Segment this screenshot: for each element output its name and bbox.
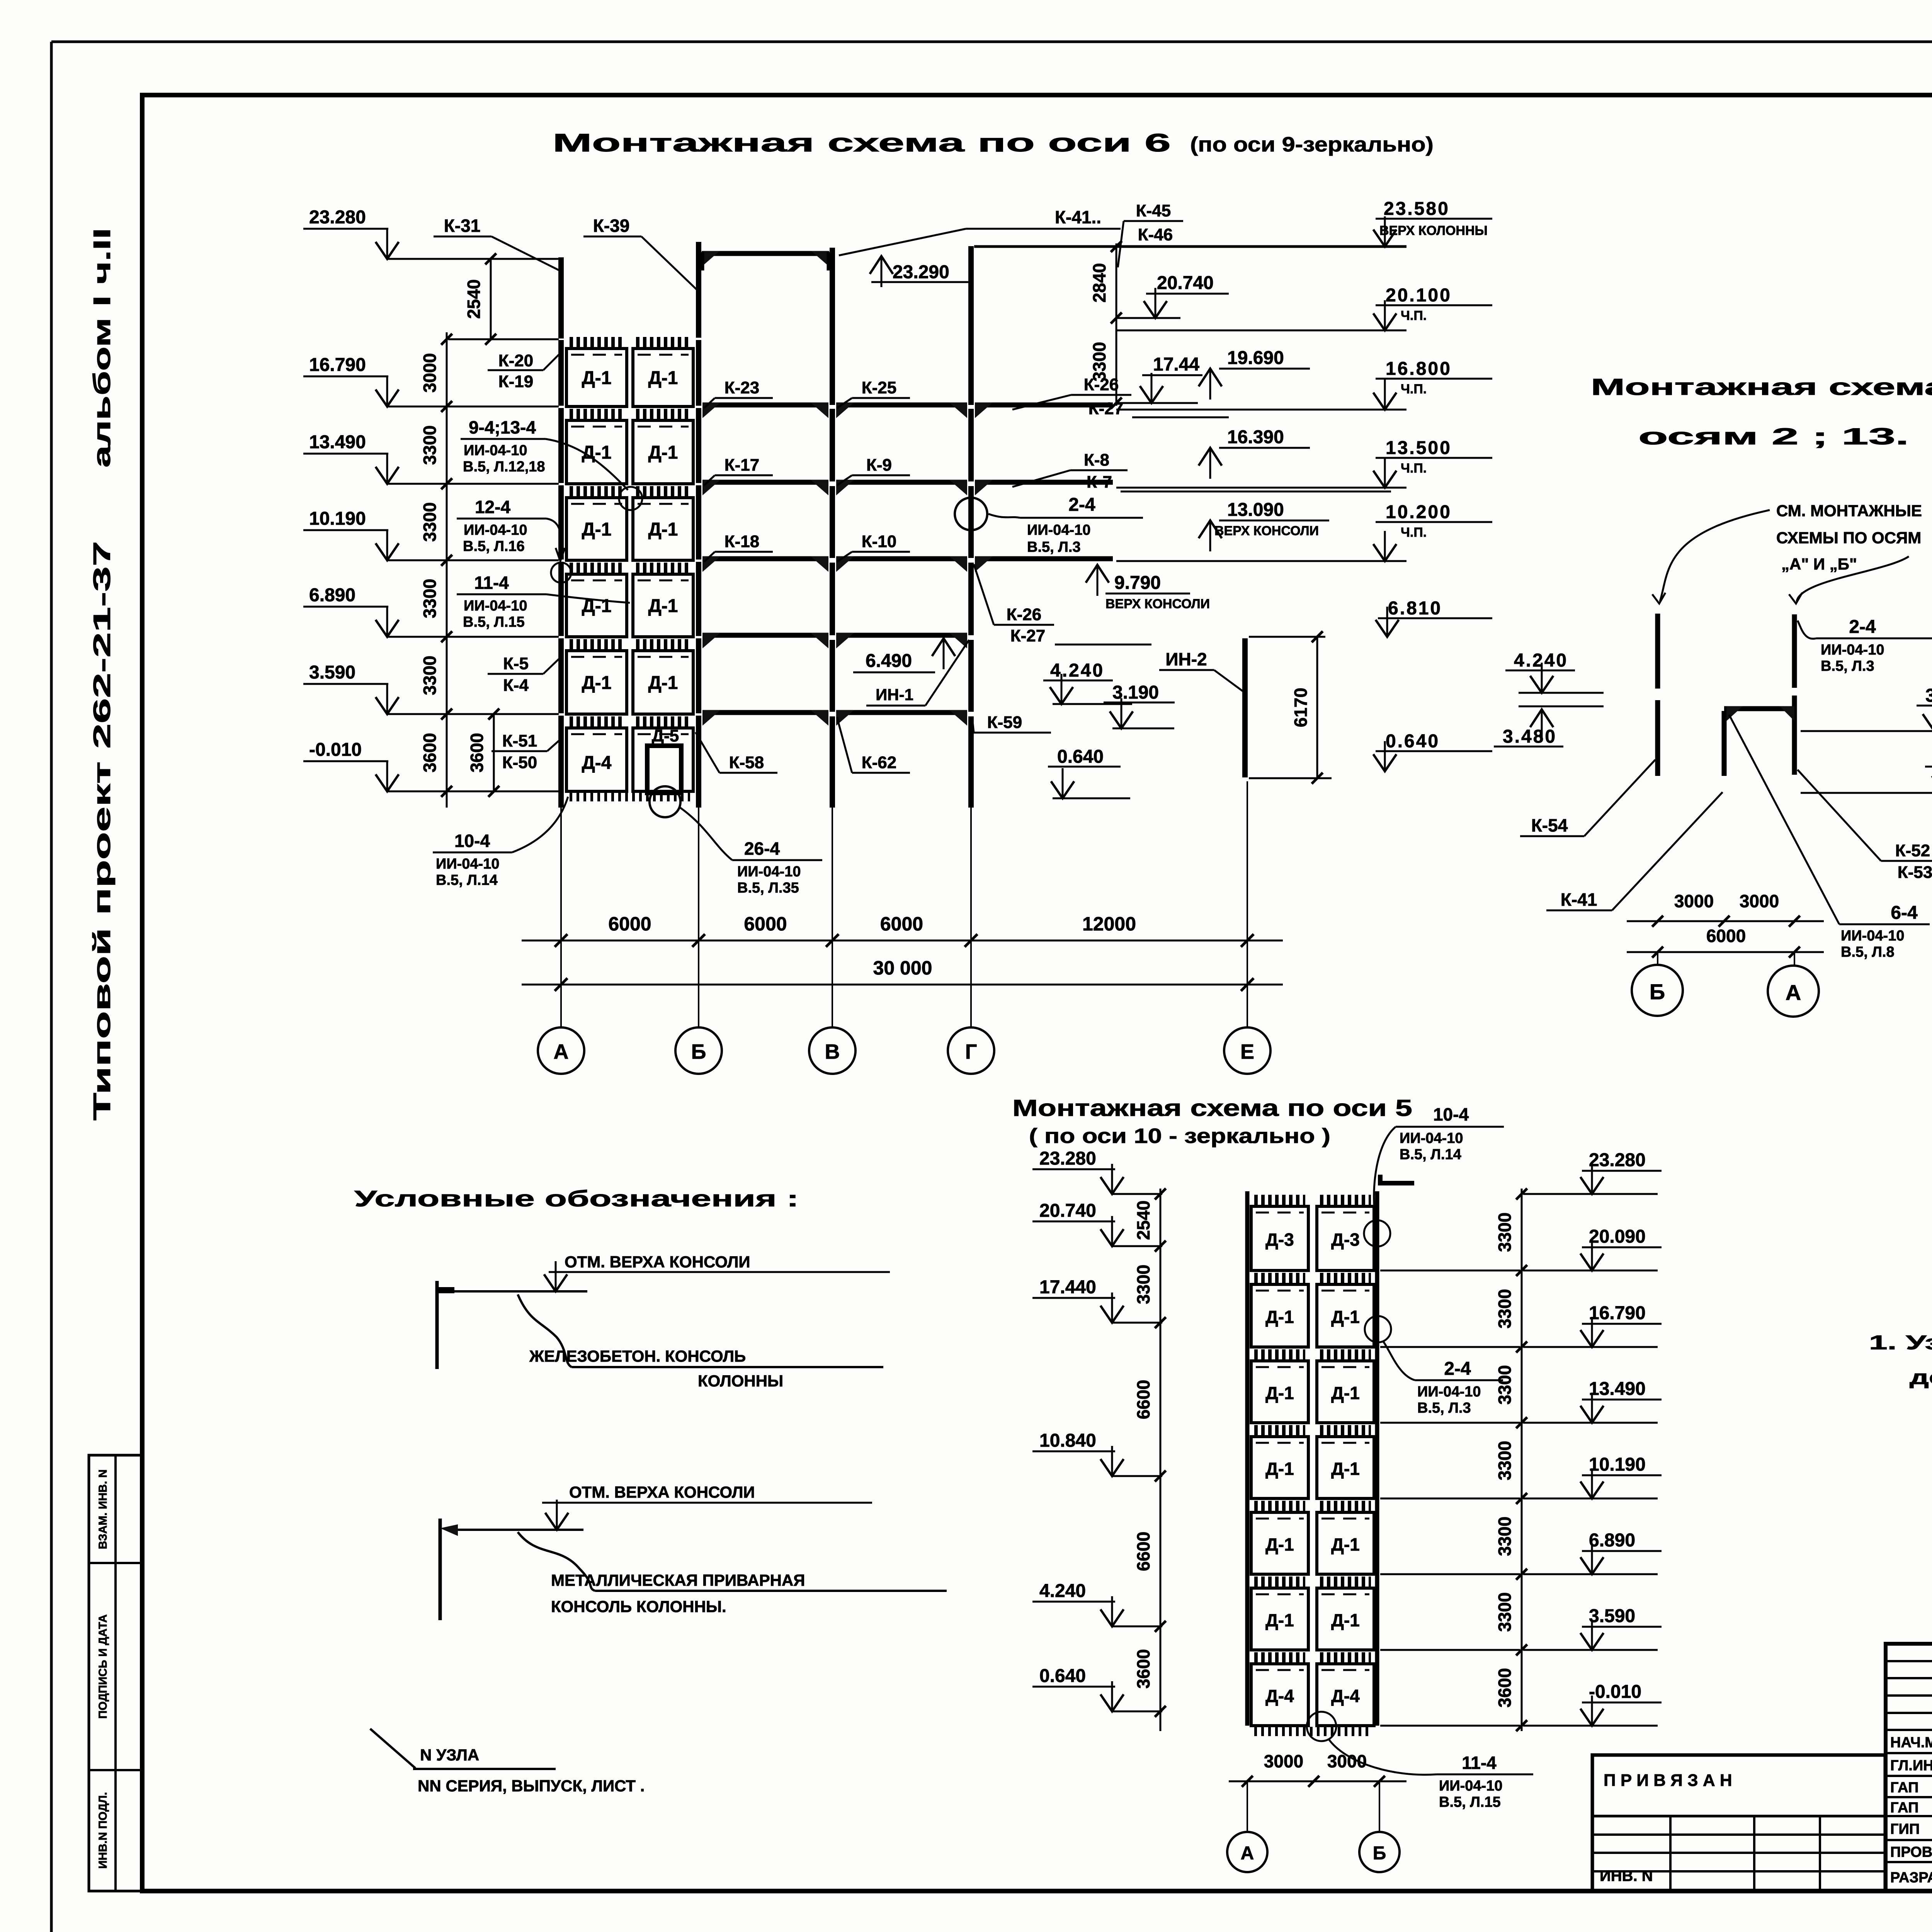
svg-text:ИИ-04-10: ИИ-04-10 [1417, 1384, 1481, 1400]
svg-text:ГАП: ГАП [1890, 1800, 1918, 1816]
leader to column 2 [1797, 556, 1909, 601]
axis circle Г [948, 1027, 994, 1074]
dim line 2840/3300 [1116, 243, 1117, 406]
svg-text:Д-1: Д-1 [1331, 1610, 1360, 1630]
svg-text:Е: Е [1240, 1040, 1254, 1063]
svg-text:К-58: К-58 [729, 753, 764, 772]
panel Д-1 row 3 col 2 [636, 486, 690, 496]
svg-text:Б: Б [1650, 980, 1665, 1004]
svg-text:К-54: К-54 [1531, 815, 1568, 835]
svg-text:6000: 6000 [880, 913, 923, 935]
leader to column 1 [1660, 510, 1770, 601]
line 13.500 [1116, 487, 1406, 489]
axis lines [1247, 1781, 1248, 1831]
svg-text:К-5: К-5 [503, 654, 529, 673]
svg-text:ОТМ. ВЕРХА КОНСОЛИ: ОТМ. ВЕРХА КОНСОЛИ [569, 1483, 755, 1501]
panel Д-1 row 6 col 1 [1254, 1577, 1305, 1587]
floor lines chain to column A [448, 406, 559, 408]
svg-text:11-4: 11-4 [1462, 1753, 1497, 1773]
svg-text:ИИ-04-10: ИИ-04-10 [464, 598, 527, 614]
svg-text:В.5, Л.3: В.5, Л.3 [1417, 1400, 1471, 1416]
left margin cells [89, 1455, 142, 1891]
panel Д-3 row 1 col 2 [1320, 1195, 1371, 1205]
svg-text:3000: 3000 [420, 353, 440, 393]
node circle at Д-5 bottom [650, 786, 680, 817]
svg-text:6000: 6000 [744, 913, 787, 935]
svg-text:23.580: 23.580 [1384, 199, 1450, 219]
svg-text:Ч.П.: Ч.П. [1401, 525, 1427, 540]
svg-text:Д-1: Д-1 [1331, 1534, 1360, 1554]
svg-text:К-41: К-41 [1561, 889, 1597, 910]
svg-text:20.740: 20.740 [1157, 273, 1214, 293]
svg-text:6.490: 6.490 [866, 651, 912, 671]
svg-text:Д-1: Д-1 [1265, 1383, 1294, 1403]
panel Д-1 row 4 col 1 [1254, 1425, 1305, 1435]
svg-text:П Р И В Я З А Н: П Р И В Я З А Н [1604, 1771, 1732, 1790]
svg-text:16.800: 16.800 [1386, 359, 1452, 379]
svg-text:ГЛ.ИНЖ.М: ГЛ.ИНЖ.М [1890, 1758, 1932, 1774]
level 19.690 [1209, 369, 1211, 400]
svg-text:N УЗЛА: N УЗЛА [420, 1746, 479, 1764]
svg-text:„А" И „Б": „А" И „Б" [1781, 555, 1857, 573]
svg-text:К-45: К-45 [1136, 201, 1171, 220]
svg-text:23.280: 23.280 [1589, 1150, 1646, 1170]
svg-text:3300: 3300 [1133, 1265, 1153, 1304]
svg-text:3000: 3000 [1327, 1751, 1367, 1771]
svg-text:11-4: 11-4 [474, 573, 509, 593]
axis circle А mid [1768, 966, 1819, 1017]
svg-text:К-7: К-7 [1087, 473, 1112, 492]
dimension line 30000 [522, 984, 1283, 986]
svg-text:В.5, Л.15: В.5, Л.15 [463, 614, 525, 630]
svg-text:К-51: К-51 [502, 731, 537, 750]
svg-text:Д-1: Д-1 [1265, 1307, 1294, 1327]
panel Д-4 row 6 col 1 [570, 716, 624, 726]
svg-text:6600: 6600 [1133, 1380, 1153, 1419]
svg-text:В.5, Л.14: В.5, Л.14 [1400, 1146, 1461, 1163]
svg-text:В.5, Л.16: В.5, Л.16 [463, 538, 525, 554]
svg-text:К-27: К-27 [1010, 626, 1045, 645]
svg-text:ИН-1: ИН-1 [876, 685, 913, 704]
svg-text:3.590: 3.590 [309, 662, 355, 683]
svg-text:13.490: 13.490 [1589, 1379, 1646, 1399]
mid scheme middle column [1722, 711, 1727, 776]
svg-text:К-10: К-10 [862, 532, 896, 551]
svg-text:Д-3: Д-3 [1331, 1230, 1360, 1250]
svg-text:23.290: 23.290 [893, 262, 949, 282]
panel Д-1 row 4 col 2 [1320, 1425, 1371, 1435]
svg-text:Д-3: Д-3 [1265, 1230, 1294, 1250]
svg-text:3300: 3300 [420, 579, 440, 618]
panel Д-1 row 5 col 1 [1254, 1501, 1305, 1511]
level 16.390 [1209, 448, 1211, 479]
svg-text:Монтажная схема по оси 6: Монтажная схема по оси 6 [553, 128, 1171, 157]
svg-text:2540: 2540 [1133, 1201, 1153, 1240]
svg-text:0.640: 0.640 [1039, 1666, 1086, 1686]
svg-text:20.100: 20.100 [1386, 285, 1452, 306]
top line 23.580 [974, 245, 1406, 248]
svg-text:детали приведены в альбоме: детали приведены в альбоме ИИ-04-10 вып.… [1910, 1366, 1932, 1389]
svg-text:К-50: К-50 [502, 753, 537, 772]
svg-text:3300: 3300 [1495, 1289, 1515, 1328]
roof beam Б-В [702, 251, 829, 256]
svg-text:ПРОВЕР.: ПРОВЕР. [1890, 1844, 1932, 1861]
svg-text:16.390: 16.390 [1227, 427, 1284, 447]
svg-text:NN СЕРИЯ, ВЫПУСК, ЛИСТ .: NN СЕРИЯ, ВЫПУСК, ЛИСТ . [418, 1777, 645, 1795]
node circle row2/3 joint [619, 487, 642, 510]
svg-text:ИИ-04-10: ИИ-04-10 [1439, 1778, 1502, 1794]
svg-text:10.190: 10.190 [309, 509, 366, 529]
svg-text:А: А [1241, 1843, 1254, 1864]
svg-text:Д-1: Д-1 [582, 673, 612, 693]
svg-text:10-4: 10-4 [454, 831, 490, 851]
svg-text:4.240: 4.240 [1039, 1581, 1086, 1601]
svg-text:10.840: 10.840 [1039, 1430, 1096, 1451]
svg-text:Д-1: Д-1 [648, 368, 678, 388]
column A [558, 257, 564, 338]
svg-text:ИНВ. N: ИНВ. N [1600, 1867, 1653, 1884]
svg-text:10-4: 10-4 [1433, 1104, 1469, 1124]
svg-text:альбом I ч.II: альбом I ч.II [89, 228, 116, 468]
svg-text:К-31: К-31 [444, 216, 481, 236]
svg-text:ИИ-04-10: ИИ-04-10 [1027, 522, 1090, 538]
svg-text:ГИП: ГИП [1890, 1821, 1920, 1837]
panel Д-5 row 6 col 2 [636, 716, 690, 726]
dim 2540 [490, 259, 492, 339]
svg-text:9-4;13-4: 9-4;13-4 [469, 417, 536, 437]
svg-text:ЖЕЛЕЗОБЕТОН. КОНСОЛЬ: ЖЕЛЕЗОБЕТОН. КОНСОЛЬ [529, 1347, 746, 1365]
svg-text:Д-5: Д-5 [652, 726, 679, 745]
svg-text:Д-1: Д-1 [1265, 1534, 1294, 1554]
level 9.790 ВЕРХ КОНСОЛИ [1097, 565, 1099, 596]
svg-text:Типовой проект 262-21-37: Типовой проект 262-21-37 [89, 541, 116, 1121]
svg-text:В.5, Л.12,18: В.5, Л.12,18 [463, 459, 545, 475]
svg-text:12000: 12000 [1082, 913, 1136, 935]
svg-text:6.890: 6.890 [309, 585, 355, 605]
svg-text:3300: 3300 [1495, 1517, 1515, 1556]
svg-text:КОЛОННЫ: КОЛОННЫ [698, 1372, 783, 1390]
panel Д-1 row 4 col 1 [570, 563, 624, 573]
svg-text:Г: Г [965, 1040, 977, 1063]
svg-text:Условные обозначения :: Условные обозначения : [354, 1186, 799, 1211]
svg-text:0.640: 0.640 [1057, 747, 1104, 767]
svg-text:3.190: 3.190 [1112, 682, 1159, 703]
svg-text:Монтажная схема по оси 5: Монтажная схема по оси 5 [1012, 1095, 1412, 1121]
node circle on column A [551, 563, 571, 583]
dimension line 6000s [522, 940, 1283, 942]
svg-text:6000: 6000 [1706, 926, 1746, 946]
svg-text:13.090: 13.090 [1227, 500, 1284, 520]
svg-text:ОТМ. ВЕРХА КОНСОЛИ: ОТМ. ВЕРХА КОНСОЛИ [565, 1253, 750, 1271]
svg-text:К-4: К-4 [503, 676, 529, 695]
svg-text:Б: Б [691, 1040, 706, 1063]
bottom scheme floor lines to right chain [1380, 1270, 1520, 1272]
svg-text:9.790: 9.790 [1114, 573, 1161, 593]
svg-text:6.890: 6.890 [1589, 1530, 1635, 1551]
title block attached box (privyazan) [1592, 1755, 1885, 1891]
svg-text:16.790: 16.790 [1589, 1303, 1646, 1323]
panel Д-1 row 3 col 1 [570, 486, 624, 496]
svg-text:13.490: 13.490 [309, 432, 366, 452]
svg-text:В.5, Л.14: В.5, Л.14 [436, 872, 498, 888]
panel Д-1 row 5 col 2 [1320, 1501, 1371, 1511]
svg-text:В.5, Л.35: В.5, Л.35 [737, 880, 799, 896]
svg-text:А: А [554, 1040, 569, 1063]
svg-text:3300: 3300 [1089, 342, 1109, 381]
legend symbol 2: welded steel console [439, 1519, 442, 1620]
svg-text:10.200: 10.200 [1386, 502, 1452, 522]
svg-text:Д-1: Д-1 [1331, 1307, 1360, 1327]
panel Д-1 row 6 col 2 [1320, 1577, 1371, 1587]
element ИН-2 column [1242, 638, 1248, 777]
svg-text:Д-1: Д-1 [648, 442, 678, 463]
legend symbol 3: node reference [370, 1729, 415, 1768]
svg-text:В: В [825, 1040, 840, 1063]
svg-text:3000: 3000 [1740, 891, 1779, 911]
svg-text:( по оси 10 - зеркально ): ( по оси 10 - зеркально ) [1029, 1124, 1330, 1148]
svg-text:ВЕРХ КОНСОЛИ: ВЕРХ КОНСОЛИ [1105, 597, 1210, 611]
console beams right of Г [975, 403, 1113, 408]
svg-text:ГАП: ГАП [1890, 1780, 1918, 1796]
main stamp [1886, 1644, 1932, 1891]
svg-text:-0.010: -0.010 [1589, 1682, 1641, 1702]
svg-text:3300: 3300 [1495, 1213, 1515, 1252]
svg-text:3.190: 3.190 [1925, 685, 1932, 706]
svg-text:СМ. МОНТАЖНЫЕ: СМ. МОНТАЖНЫЕ [1776, 502, 1922, 520]
svg-text:1. Узлы соединения элементо: 1. Узлы соединения элементов и монтажные [1869, 1332, 1932, 1354]
level 23.290 mark [881, 256, 883, 287]
svg-text:3300: 3300 [420, 502, 440, 542]
svg-text:К-46: К-46 [1138, 225, 1173, 244]
svg-text:26-4: 26-4 [744, 838, 780, 859]
svg-text:3300: 3300 [420, 425, 440, 465]
svg-text:К-39: К-39 [593, 216, 630, 236]
svg-text:17.440: 17.440 [1039, 1277, 1096, 1298]
bottom comb row [570, 791, 690, 801]
column B (axis Б) [696, 242, 701, 338]
axis circle А bottom [1227, 1832, 1267, 1872]
svg-text:НАЧ.МАСТ.: НАЧ.МАСТ. [1890, 1735, 1932, 1751]
svg-text:17.44: 17.44 [1153, 354, 1199, 375]
svg-text:Ч.П.: Ч.П. [1401, 382, 1427, 396]
svg-text:2-4: 2-4 [1068, 495, 1095, 515]
dim 3600 lower [493, 714, 495, 791]
panel Д-1 row 1 col 2 [636, 337, 690, 347]
svg-text:Д-1: Д-1 [1331, 1459, 1360, 1479]
svg-text:К-18: К-18 [724, 532, 759, 551]
svg-text:ВЗАМ. ИНВ. N: ВЗАМ. ИНВ. N [97, 1469, 109, 1549]
axis circle В [809, 1027, 855, 1074]
svg-text:19.690: 19.690 [1227, 348, 1284, 368]
panel Д-1 row 5 col 1 [570, 639, 624, 649]
svg-text:К-53: К-53 [1898, 863, 1932, 882]
svg-text:ИНВ.N ПОДЛ.: ИНВ.N ПОДЛ. [97, 1792, 109, 1869]
axis circle Б bottom [1359, 1832, 1400, 1872]
svg-text:ИИ-04-10: ИИ-04-10 [1821, 642, 1884, 658]
svg-text:В.5, Л.8: В.5, Л.8 [1841, 944, 1895, 960]
svg-text:МЕТАЛЛИЧЕСКАЯ ПРИВАРНАЯ: МЕТАЛЛИЧЕСКАЯ ПРИВАРНАЯ [551, 1571, 805, 1589]
bottom comb [1254, 1727, 1371, 1736]
svg-text:К-52: К-52 [1895, 841, 1930, 860]
svg-text:6-4: 6-4 [1891, 903, 1918, 923]
svg-text:Б: Б [1373, 1843, 1386, 1864]
svg-text:К-41..: К-41.. [1055, 207, 1101, 227]
legend symbol 1: concrete console [435, 1281, 439, 1369]
panel Д-1 row 2 col 1 [1254, 1273, 1305, 1283]
svg-text:Д-1: Д-1 [648, 596, 678, 616]
svg-text:3600: 3600 [1495, 1668, 1515, 1708]
panel Д-4 row 7 col 2 [1320, 1652, 1371, 1662]
svg-text:Д-4: Д-4 [1265, 1686, 1294, 1706]
svg-text:2840: 2840 [1089, 263, 1109, 303]
svg-text:-0.010: -0.010 [309, 740, 362, 760]
svg-text:К-19: К-19 [498, 372, 533, 391]
svg-text:30 000: 30 000 [873, 957, 932, 979]
column G (axis Г) [968, 246, 974, 405]
svg-text:ИИ-04-10: ИИ-04-10 [1400, 1130, 1463, 1146]
svg-text:К-25: К-25 [862, 378, 896, 397]
svg-text:Д-4: Д-4 [582, 753, 612, 773]
svg-text:В.5, Л.3: В.5, Л.3 [1821, 658, 1874, 674]
column V (axis В) [830, 248, 835, 405]
svg-text:2-4: 2-4 [1849, 617, 1876, 637]
panel Д-1 row 2 col 2 [1320, 1273, 1371, 1283]
panel Д-1 row 3 col 2 [1320, 1349, 1371, 1359]
svg-text:ИН-2: ИН-2 [1165, 649, 1207, 669]
line 10.200 [1116, 560, 1406, 562]
svg-text:К-20: К-20 [498, 351, 533, 370]
svg-text:К-62: К-62 [862, 753, 896, 772]
svg-text:3300: 3300 [1495, 1441, 1515, 1480]
svg-text:3600: 3600 [420, 733, 440, 772]
svg-text:Д-1: Д-1 [648, 519, 678, 540]
svg-text:4.240: 4.240 [1050, 660, 1104, 681]
svg-text:20.090: 20.090 [1589, 1226, 1646, 1247]
sheet outer border [51, 41, 1932, 43]
svg-text:Ч.П.: Ч.П. [1401, 308, 1427, 323]
svg-text:2540: 2540 [464, 279, 484, 319]
svg-text:3000: 3000 [1674, 891, 1714, 911]
svg-text:КОНСОЛЬ КОЛОННЫ.: КОНСОЛЬ КОЛОННЫ. [551, 1597, 726, 1616]
bottom scheme right chain [1521, 1189, 1523, 1731]
bottom scheme columns [1245, 1191, 1250, 1726]
svg-text:ИИ-04-10: ИИ-04-10 [1841, 928, 1904, 944]
svg-text:Д-1: Д-1 [582, 368, 612, 388]
svg-text:осям 2 ; 13.: осям 2 ; 13. [1638, 423, 1909, 449]
svg-text:3300: 3300 [1495, 1365, 1515, 1405]
line 19.690/16.800 [1116, 402, 1198, 404]
bottom scheme left chain [1160, 1189, 1162, 1731]
svg-text:К-8: К-8 [1084, 451, 1109, 469]
Д-5 portal opening [647, 746, 681, 793]
svg-text:3000: 3000 [1264, 1751, 1303, 1771]
svg-text:3.590: 3.590 [1589, 1606, 1635, 1626]
svg-text:Д-1: Д-1 [582, 442, 612, 463]
svg-text:Монтажная схема по: Монтажная схема по [1591, 374, 1932, 400]
axis circle А [538, 1027, 584, 1074]
svg-text:В.5, Л.15: В.5, Л.15 [1439, 1794, 1501, 1810]
label 2-4 circle on Г [955, 498, 987, 530]
beams bay Б-В and В-Г [702, 403, 828, 408]
svg-text:2-4: 2-4 [1444, 1359, 1471, 1379]
level 13.090 ВЕРХ КОНСОЛИ [1209, 520, 1211, 551]
axis circle Б mid [1632, 965, 1683, 1016]
svg-text:16.790: 16.790 [309, 355, 366, 375]
svg-text:К-23: К-23 [724, 378, 759, 397]
panel Д-1 row 2 col 1 [570, 409, 624, 419]
mid scheme column on axis А [1792, 614, 1797, 688]
svg-text:К-59: К-59 [987, 713, 1022, 732]
svg-text:23.280: 23.280 [309, 207, 366, 228]
svg-text:Ч.П.: Ч.П. [1401, 461, 1427, 476]
line 20.740/20.100 [1116, 317, 1180, 319]
svg-text:Д-1: Д-1 [1265, 1610, 1294, 1630]
panel Д-1 row 3 col 1 [1254, 1349, 1305, 1359]
svg-text:Д-1: Д-1 [1331, 1383, 1360, 1403]
svg-text:3600: 3600 [1133, 1649, 1153, 1689]
svg-text:Д-1: Д-1 [1265, 1459, 1294, 1479]
mid scheme column on axis Б [1655, 614, 1660, 689]
svg-text:К-26: К-26 [1007, 605, 1041, 624]
svg-text:А: А [1786, 980, 1801, 1005]
svg-text:13.500: 13.500 [1386, 438, 1452, 458]
axis circle Б [675, 1027, 722, 1074]
svg-text:Д-4: Д-4 [1331, 1686, 1360, 1706]
mid axis circles [1657, 952, 1658, 965]
svg-text:СХЕМЫ ПО ОСЯМ: СХЕМЫ ПО ОСЯМ [1776, 529, 1921, 547]
panel Д-1 row 1 col 1 [570, 337, 624, 347]
svg-text:3.480: 3.480 [1503, 726, 1557, 747]
svg-text:3600: 3600 [467, 733, 487, 772]
svg-text:К-9: К-9 [866, 456, 892, 474]
svg-text:20.740: 20.740 [1039, 1201, 1096, 1221]
svg-text:10.190: 10.190 [1589, 1454, 1646, 1475]
dim 6170 [1316, 637, 1318, 778]
line 6.810 top of ИН-2 [1249, 636, 1325, 638]
svg-text:РАЗРАБ.: РАЗРАБ. [1890, 1870, 1932, 1886]
svg-text:3300: 3300 [420, 656, 440, 695]
panel Д-1 row 4 col 2 [636, 563, 690, 573]
panel Д-1 row 2 col 2 [636, 409, 690, 419]
svg-text:ИИ-04-10: ИИ-04-10 [464, 442, 527, 459]
svg-text:0.640: 0.640 [1386, 731, 1440, 752]
svg-text:6.810: 6.810 [1388, 598, 1442, 619]
svg-text:6000: 6000 [608, 913, 651, 935]
svg-text:ВЕРХ КОНСОЛИ: ВЕРХ КОНСОЛИ [1214, 524, 1319, 538]
svg-text:(по оси 9-зеркально): (по оси 9-зеркально) [1190, 133, 1434, 156]
svg-text:К-17: К-17 [724, 456, 759, 474]
svg-text:ИИ-04-10: ИИ-04-10 [737, 864, 801, 880]
svg-text:12-4: 12-4 [475, 497, 510, 517]
vertical dimension chain [446, 332, 448, 808]
svg-text:6170: 6170 [1291, 688, 1311, 727]
mid scheme beam [1724, 706, 1797, 711]
svg-text:В.5, Л.3: В.5, Л.3 [1027, 539, 1081, 555]
panel Д-1 row 5 col 2 [636, 639, 690, 649]
panel Д-3 row 1 col 1 [1254, 1195, 1305, 1205]
svg-text:23.280: 23.280 [1039, 1148, 1096, 1169]
svg-text:ИИ-04-10: ИИ-04-10 [436, 856, 499, 872]
axis circle Е [1224, 1027, 1270, 1074]
svg-text:6600: 6600 [1133, 1532, 1153, 1571]
axis lines down to circles [560, 808, 562, 1027]
panel Д-4 row 7 col 1 [1254, 1652, 1305, 1662]
svg-text:ИИ-04-10: ИИ-04-10 [464, 522, 527, 538]
svg-text:ПОДПИСЬ И ДАТА: ПОДПИСЬ И ДАТА [97, 1614, 109, 1719]
svg-text:Д-1: Д-1 [582, 519, 612, 540]
svg-text:Д-1: Д-1 [648, 673, 678, 693]
svg-text:3300: 3300 [1495, 1592, 1515, 1632]
